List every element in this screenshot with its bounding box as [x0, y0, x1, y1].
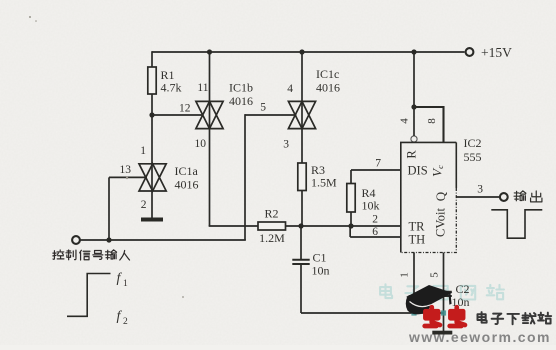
svg-text:555: 555: [464, 150, 482, 164]
svg-text:5: 5: [260, 102, 266, 114]
wire R1 branch (rail to IC1a pin1): [151, 51, 153, 68]
wire IC1b pin11 drop: [209, 52, 211, 226]
wire R2 to TR node: [286, 225, 401, 227]
svg-text:8: 8: [426, 118, 438, 124]
svg-text:10: 10: [195, 138, 207, 150]
wire C2 to ground: [443, 296, 445, 331]
switch IC1c: [288, 101, 315, 128]
label control signal input CJK: [53, 250, 64, 259]
node junction R4/TR: [348, 223, 353, 228]
svg-text:IC2: IC2: [464, 136, 482, 150]
svg-text:4: 4: [287, 83, 293, 95]
terminal output: [500, 193, 508, 201]
resistor R1: [148, 67, 156, 94]
svg-text:2: 2: [141, 199, 147, 211]
svg-text:IC1a: IC1a: [175, 164, 199, 178]
svg-text:Q: Q: [433, 191, 448, 201]
svg-text:1: 1: [399, 272, 411, 278]
watermark graduation cap logo: [406, 285, 453, 314]
wire control input run: [81, 239, 246, 241]
node junction R1/pin12: [149, 112, 154, 117]
wire pin 4: [413, 107, 415, 136]
svg-text:12: 12: [179, 103, 191, 115]
svg-text:1: 1: [140, 145, 146, 157]
ground C2: [432, 331, 452, 335]
wire pin5 control path: [245, 114, 297, 116]
node junction pin4/pin8: [411, 104, 416, 109]
svg-text:DIS: DIS: [408, 164, 428, 178]
svg-text:4016: 4016: [316, 81, 340, 95]
svg-text:13: 13: [120, 164, 132, 176]
wire pin 8: [442, 106, 444, 142]
wire pin7 DIS: [351, 169, 401, 171]
capacitor C1: [300, 226, 302, 259]
svg-text:4016: 4016: [175, 178, 199, 192]
wire R3 to main node: [301, 191, 303, 227]
svg-text:TR: TR: [409, 220, 426, 234]
svg-text:1.2M: 1.2M: [259, 231, 285, 245]
svg-text:C2: C2: [456, 282, 470, 296]
svg-text:10n: 10n: [312, 264, 330, 278]
svg-text:7: 7: [375, 158, 381, 170]
svg-text:1: 1: [123, 279, 128, 289]
capacitor C2: [435, 291, 452, 293]
svg-text:C1: C1: [313, 251, 327, 265]
resistor R4: [350, 170, 352, 184]
watermark site name CJK: [477, 312, 486, 322]
pin 4 reset bubble: [411, 136, 417, 142]
watermark teal site text: [380, 284, 392, 298]
wire pin12 (R1 to IC1b control): [152, 114, 204, 116]
node teal junction pin1/bottom: [411, 310, 416, 315]
label output CJK: [514, 191, 526, 201]
node teal junction pin5/bottom: [441, 310, 446, 315]
svg-text:6: 6: [372, 226, 378, 238]
wire IC1c pin4 drop: [301, 52, 303, 164]
node junction rail/IC1b pin11: [207, 49, 212, 54]
switch IC1b: [196, 101, 223, 128]
svg-text:10k: 10k: [362, 199, 380, 213]
svg-text:2: 2: [372, 214, 378, 226]
wire pin6 TH: [349, 226, 351, 237]
node junction rail/555 supply: [411, 49, 416, 54]
wire pin13 branch: [108, 177, 110, 240]
svg-text:11: 11: [197, 82, 208, 94]
waveform output pulse: [491, 210, 542, 238]
svg-text:www.eeworm.com: www.eeworm.com: [408, 329, 551, 345]
node junction input/pin13: [106, 237, 111, 242]
svg-text:3: 3: [477, 184, 483, 196]
resistor R3: [298, 163, 306, 191]
svg-text:5: 5: [429, 272, 441, 278]
op-amp-style block: IC2 555 timer box: [401, 142, 457, 252]
wire bottom ground run: [301, 312, 444, 314]
wire pin 1 drop: [413, 253, 415, 314]
svg-text:4016: 4016: [229, 94, 253, 108]
terminal control input: [72, 236, 80, 244]
svg-text:1.5M: 1.5M: [311, 176, 337, 190]
svg-text:R: R: [405, 150, 419, 159]
svg-text:+15V: +15V: [481, 45, 512, 60]
terminal +15V: [466, 48, 474, 56]
svg-text:TH: TH: [409, 233, 426, 247]
switch IC1a: [139, 164, 166, 191]
svg-text:CVoit: CVoit: [434, 208, 448, 237]
wire IC1b pin10 to R2: [209, 225, 258, 227]
svg-text:2: 2: [123, 317, 128, 327]
node junction R3/C1/R2: [298, 223, 303, 228]
wire +15V top rail: [152, 51, 465, 53]
svg-text:IC1b: IC1b: [229, 81, 253, 95]
svg-text:10n: 10n: [452, 295, 470, 309]
svg-text:3: 3: [283, 139, 289, 151]
wire pin 3 output: [456, 196, 499, 198]
svg-text:4: 4: [399, 118, 411, 124]
wire 555 supply drop: [413, 52, 415, 107]
waveform control step f1 f2: [67, 274, 111, 317]
svg-text:IC1c: IC1c: [316, 67, 339, 81]
resistor R2: [258, 222, 286, 230]
node junction rail/IC1c pin4: [299, 49, 304, 54]
scan speckles: [29, 16, 184, 298]
wire pin 5 drop: [443, 253, 445, 292]
svg-text:R2: R2: [264, 207, 278, 221]
watermark red chongchong: [425, 307, 440, 326]
svg-text:4.7k: 4.7k: [161, 81, 182, 95]
ground IC1a: [141, 218, 163, 222]
